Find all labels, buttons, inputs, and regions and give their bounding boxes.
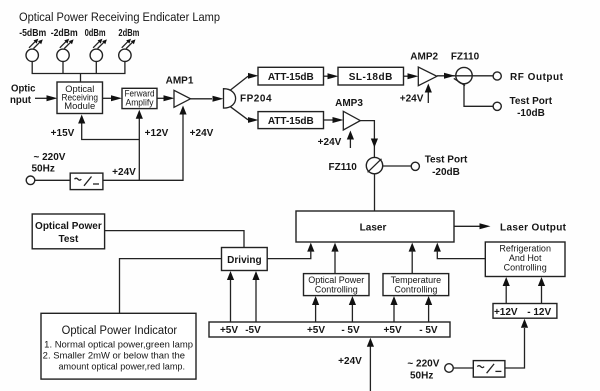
svg-text:+24V: +24V xyxy=(338,356,362,367)
svg-text:- 12V: - 12V xyxy=(527,307,551,318)
svg-text:RF Output: RF Output xyxy=(510,72,564,83)
svg-text:SL-18dB: SL-18dB xyxy=(349,72,393,83)
svg-text:Controlling: Controlling xyxy=(315,285,358,295)
svg-text:AMP3: AMP3 xyxy=(335,98,363,109)
svg-text:- 5V: - 5V xyxy=(419,325,438,336)
svg-text:+5V: +5V xyxy=(307,325,325,336)
svg-text:Optical Power Receiving Endica: Optical Power Receiving Endicater Lamp xyxy=(19,10,220,24)
svg-text:-10dB: -10dB xyxy=(517,108,545,119)
svg-text:Controlling: Controlling xyxy=(504,263,547,273)
svg-text:Test Port: Test Port xyxy=(509,96,552,107)
svg-text:FZ110: FZ110 xyxy=(451,52,480,63)
svg-text:Test: Test xyxy=(58,234,78,245)
svg-text:ATT-15dB: ATT-15dB xyxy=(268,72,314,83)
svg-text:-20dB: -20dB xyxy=(432,167,460,178)
svg-text:amount optical power,red lamp.: amount optical power,red lamp. xyxy=(59,362,186,372)
svg-text:+15V: +15V xyxy=(51,128,75,139)
svg-text:AMP2: AMP2 xyxy=(410,52,438,63)
svg-text:+12V: +12V xyxy=(145,128,169,139)
svg-text:Optic: Optic xyxy=(11,84,36,95)
svg-text:AMP1: AMP1 xyxy=(166,76,194,87)
svg-text:Optical Power Indicator: Optical Power Indicator xyxy=(62,325,178,337)
svg-text:Laser Output: Laser Output xyxy=(500,223,567,234)
svg-text:+24V: +24V xyxy=(190,128,214,139)
svg-text:- 5V: - 5V xyxy=(341,325,360,336)
svg-text:-5V: -5V xyxy=(245,325,261,336)
svg-text:50Hz: 50Hz xyxy=(32,164,55,175)
svg-text:+12V: +12V xyxy=(494,307,518,318)
svg-text:+24V: +24V xyxy=(318,137,342,148)
svg-text:+24V: +24V xyxy=(112,167,136,178)
svg-text:0dBm: 0dBm xyxy=(85,28,106,39)
svg-text:Optical Power: Optical Power xyxy=(35,221,102,232)
svg-text:And Hot: And Hot xyxy=(509,253,542,263)
svg-text:Driving: Driving xyxy=(227,255,261,266)
svg-text:Test Port: Test Port xyxy=(425,155,468,166)
svg-text:FP204: FP204 xyxy=(240,94,272,105)
svg-text:Controlling: Controlling xyxy=(394,285,437,295)
svg-text:ATT-15dB: ATT-15dB xyxy=(268,116,314,127)
svg-text:Amplify: Amplify xyxy=(126,97,154,107)
svg-text:~ 220V: ~ 220V xyxy=(34,152,66,163)
svg-text:nput: nput xyxy=(10,95,32,106)
svg-text:Module: Module xyxy=(64,101,95,111)
svg-text:2. Smaller 2mW or below than t: 2. Smaller 2mW or below than the xyxy=(43,351,185,361)
svg-text:2dBm: 2dBm xyxy=(118,28,139,39)
svg-text:~ 220V: ~ 220V xyxy=(407,359,439,370)
svg-text:1. Normal optical power,green: 1. Normal optical power,green lamp xyxy=(44,340,193,350)
svg-text:+5V: +5V xyxy=(384,325,402,336)
svg-text:+5V: +5V xyxy=(220,325,238,336)
svg-text:Optical Power: Optical Power xyxy=(308,275,364,285)
svg-text:Laser: Laser xyxy=(360,223,387,234)
svg-text:-2dBm: -2dBm xyxy=(51,28,78,39)
svg-text:FZ110: FZ110 xyxy=(329,162,358,173)
svg-text:Refrigeration: Refrigeration xyxy=(499,244,551,254)
svg-text:Temperature: Temperature xyxy=(391,275,442,285)
svg-text:+24V: +24V xyxy=(400,94,424,105)
svg-text:-5dBm: -5dBm xyxy=(19,28,46,39)
svg-text:50Hz: 50Hz xyxy=(410,371,433,382)
